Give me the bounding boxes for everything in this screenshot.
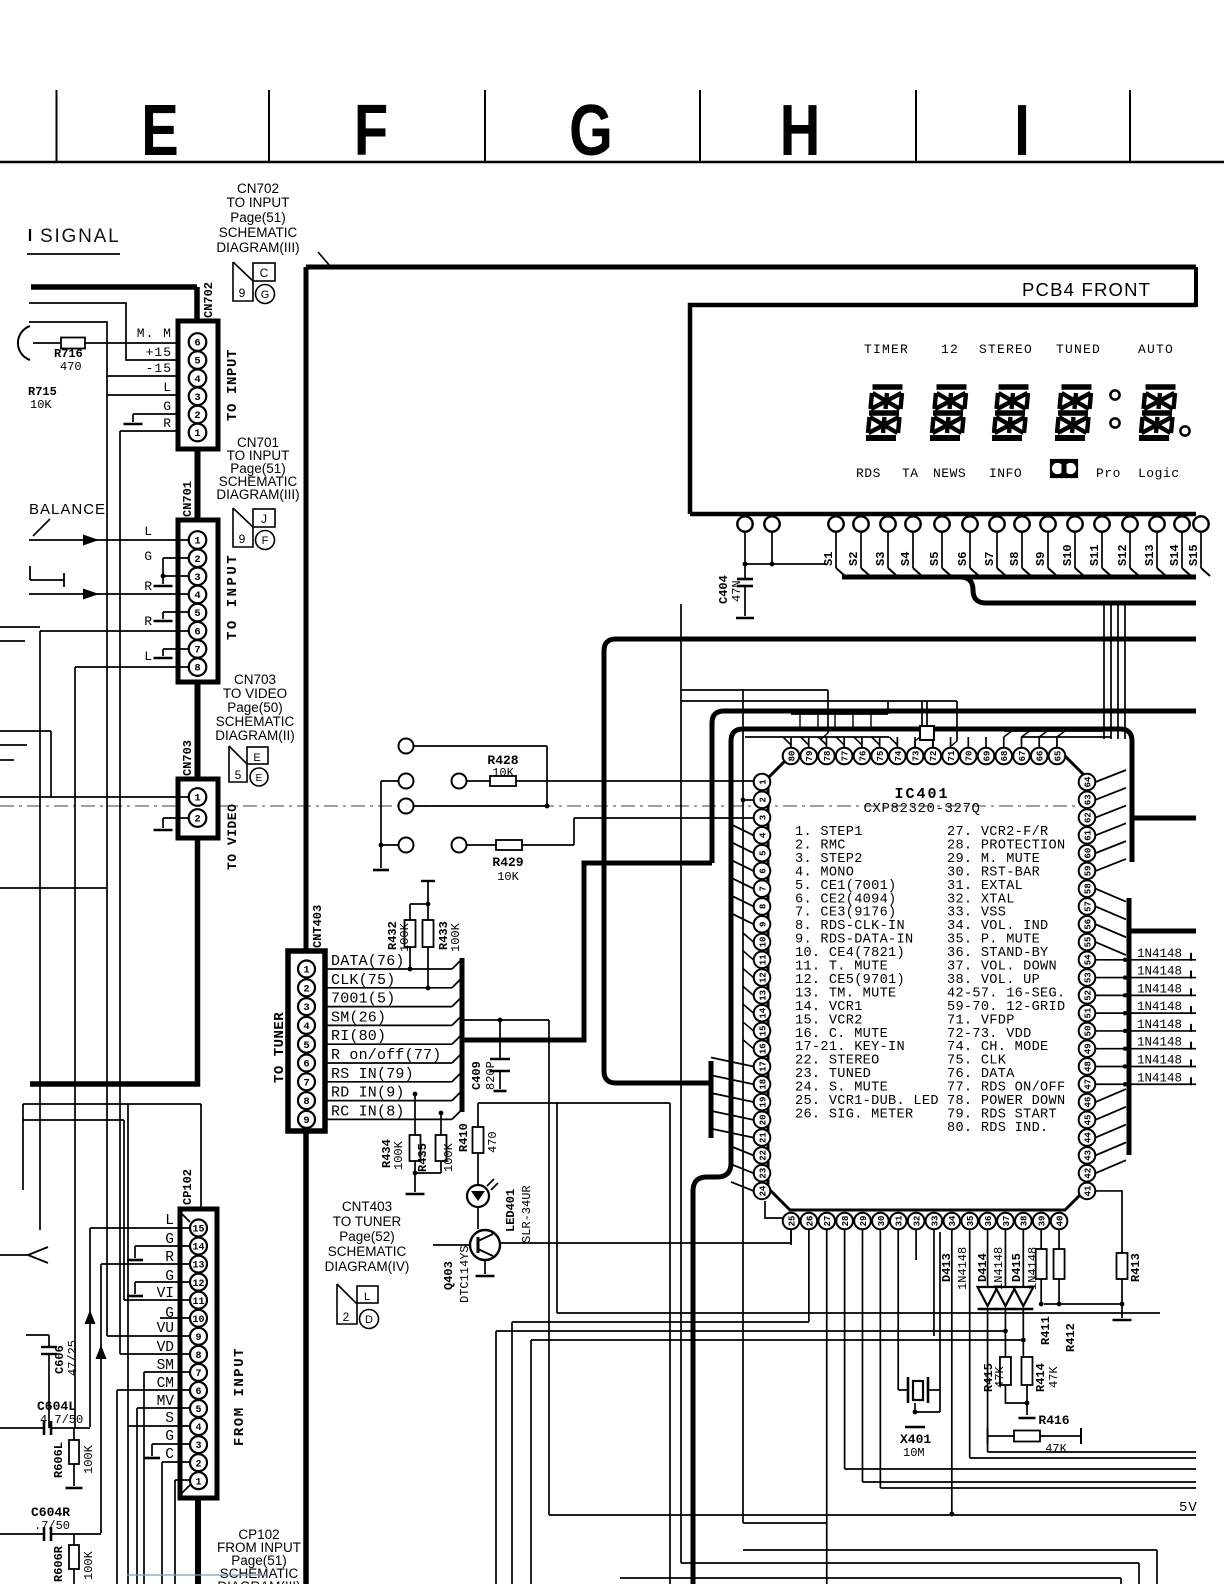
svg-text:5: 5: [303, 1040, 309, 1052]
svg-text:11: 11: [192, 1297, 204, 1308]
svg-text:L: L: [144, 649, 152, 664]
svg-text:TO VIDEO: TO VIDEO: [223, 686, 287, 701]
svg-text:TA: TA: [902, 466, 919, 481]
svg-text:L: L: [165, 1213, 174, 1229]
svg-text:PCB4 FRONT: PCB4 FRONT: [1022, 279, 1151, 300]
svg-text:F: F: [262, 535, 269, 547]
svg-text:5: 5: [194, 608, 200, 620]
svg-text:10M: 10M: [903, 1446, 925, 1460]
svg-text:1N4148: 1N4148: [1137, 1018, 1182, 1032]
svg-text:10: 10: [192, 1315, 204, 1326]
svg-text:RD IN(9): RD IN(9): [331, 1085, 405, 1102]
svg-text:11: 11: [758, 954, 768, 965]
svg-text:2: 2: [343, 1310, 350, 1324]
svg-text:7: 7: [758, 886, 768, 891]
svg-text:63: 63: [1083, 794, 1093, 805]
svg-text:3: 3: [195, 1441, 201, 1452]
svg-text:C409: C409: [470, 1061, 484, 1090]
svg-text:72: 72: [929, 751, 939, 762]
svg-text:INFO: INFO: [989, 466, 1022, 481]
svg-text:1: 1: [194, 793, 200, 805]
svg-text:S6: S6: [956, 552, 970, 566]
svg-text:470: 470: [486, 1131, 500, 1153]
svg-text:10K: 10K: [30, 398, 52, 412]
svg-text:27: 27: [823, 1216, 833, 1227]
svg-text:77: 77: [841, 751, 851, 762]
svg-text:16: 16: [758, 1043, 768, 1054]
svg-text:S9: S9: [1034, 552, 1048, 566]
svg-text:SIGNAL: SIGNAL: [40, 226, 121, 247]
svg-text:30: 30: [877, 1216, 887, 1227]
svg-text:22: 22: [758, 1150, 768, 1161]
svg-text:CN701: CN701: [181, 481, 195, 517]
svg-text:47K: 47K: [993, 1366, 1007, 1388]
svg-text:TIMER: TIMER: [864, 342, 909, 357]
svg-text:4: 4: [303, 1021, 309, 1033]
svg-text:66: 66: [1036, 751, 1046, 762]
svg-text:S: S: [165, 1411, 174, 1427]
svg-text:26. SIG. METER: 26. SIG. METER: [795, 1107, 913, 1122]
svg-text:SCHEMATIC: SCHEMATIC: [219, 225, 298, 240]
svg-text:S4: S4: [899, 552, 913, 566]
svg-text:32: 32: [912, 1216, 922, 1227]
svg-text:AUTO: AUTO: [1138, 342, 1174, 357]
svg-text:R606R: R606R: [52, 1545, 66, 1582]
svg-text:67: 67: [1018, 751, 1028, 762]
svg-text:41: 41: [1083, 1185, 1093, 1196]
svg-text:CNT403: CNT403: [342, 1199, 392, 1214]
svg-text:5: 5: [195, 1405, 201, 1416]
svg-text:42: 42: [1083, 1168, 1093, 1179]
svg-text:STEREO: STEREO: [979, 342, 1033, 357]
svg-text:R: R: [144, 579, 152, 594]
svg-text:69: 69: [982, 751, 992, 762]
svg-text:100K: 100K: [398, 922, 412, 952]
svg-text:DATA(76): DATA(76): [331, 953, 405, 970]
svg-text:DIAGRAM(III): DIAGRAM(III): [216, 240, 299, 255]
svg-text:Page(52): Page(52): [339, 1229, 395, 1244]
svg-text:Logic: Logic: [1138, 466, 1180, 481]
svg-text:G: G: [261, 289, 270, 301]
svg-text:36: 36: [984, 1216, 994, 1227]
svg-text:S7: S7: [983, 552, 997, 566]
svg-text:C: C: [260, 266, 269, 280]
svg-text:13: 13: [758, 990, 768, 1001]
svg-text:56: 56: [1083, 919, 1093, 930]
svg-text:100K: 100K: [449, 922, 463, 952]
svg-text:R: R: [163, 416, 172, 431]
svg-text:53: 53: [1083, 972, 1093, 983]
svg-text:S15: S15: [1187, 544, 1201, 566]
svg-text:SM(26): SM(26): [331, 1009, 386, 1026]
svg-text:13: 13: [192, 1261, 204, 1272]
svg-text:R413: R413: [1129, 1253, 1143, 1282]
svg-text:25: 25: [787, 1216, 797, 1227]
svg-text:15: 15: [192, 1225, 204, 1236]
svg-text:E: E: [253, 752, 260, 764]
svg-text:6: 6: [303, 1059, 309, 1071]
svg-text:G: G: [144, 549, 152, 564]
svg-text:1N4148: 1N4148: [992, 1247, 1006, 1290]
svg-text:3: 3: [758, 815, 768, 820]
svg-text:24: 24: [758, 1185, 768, 1196]
svg-text:8: 8: [194, 663, 200, 675]
svg-text:S5: S5: [928, 552, 942, 566]
svg-text:1N4148: 1N4148: [1137, 1071, 1182, 1085]
svg-text:E: E: [256, 773, 263, 784]
svg-text:6: 6: [194, 626, 200, 638]
svg-text:E: E: [141, 90, 178, 170]
svg-text:C: C: [165, 1447, 174, 1463]
svg-text:71: 71: [947, 750, 957, 761]
svg-text:10K: 10K: [497, 870, 519, 884]
svg-text:RDS: RDS: [856, 466, 881, 481]
svg-text:54: 54: [1083, 954, 1093, 965]
svg-text:R412: R412: [1064, 1323, 1078, 1352]
svg-text:R410: R410: [457, 1123, 471, 1152]
svg-text:12: 12: [941, 342, 959, 357]
svg-text:62: 62: [1083, 812, 1093, 823]
svg-text:+15: +15: [146, 345, 172, 360]
svg-text:X401: X401: [900, 1432, 931, 1447]
svg-text:RI(80): RI(80): [331, 1028, 386, 1045]
svg-text:G: G: [165, 1306, 174, 1322]
svg-text:5: 5: [194, 356, 200, 368]
svg-text:35: 35: [966, 1216, 976, 1227]
svg-text:S8: S8: [1008, 552, 1022, 566]
svg-text:3: 3: [194, 392, 200, 404]
svg-text:60: 60: [1083, 848, 1093, 859]
svg-text:59: 59: [1083, 865, 1093, 876]
svg-text:DIAGRAM(IV): DIAGRAM(IV): [325, 1259, 410, 1274]
svg-text:5V: 5V: [1179, 1500, 1198, 1516]
svg-text:TO INPUT: TO INPUT: [225, 349, 241, 421]
svg-text:18: 18: [758, 1079, 768, 1090]
svg-text:52: 52: [1083, 990, 1093, 1001]
svg-text:44: 44: [1083, 1132, 1093, 1143]
svg-text:6: 6: [758, 868, 768, 873]
svg-text:2: 2: [194, 814, 200, 826]
svg-text:68: 68: [1000, 751, 1010, 762]
svg-text:Pro: Pro: [1096, 466, 1121, 481]
svg-text:S13: S13: [1143, 544, 1157, 566]
svg-text:33: 33: [930, 1216, 940, 1227]
svg-text:100K: 100K: [82, 1444, 96, 1474]
svg-text:17: 17: [758, 1061, 768, 1072]
svg-text:LED401: LED401: [504, 1189, 518, 1232]
svg-text:47N: 47N: [730, 580, 744, 602]
svg-text:2: 2: [194, 410, 200, 422]
svg-text:14: 14: [192, 1243, 204, 1254]
svg-text:100K: 100K: [392, 1140, 406, 1170]
svg-text:100K: 100K: [82, 1550, 96, 1580]
svg-text:CP102: CP102: [181, 1169, 195, 1205]
svg-text:39: 39: [1038, 1216, 1048, 1227]
svg-text:G: G: [163, 399, 172, 414]
svg-text:TO INPUT: TO INPUT: [225, 553, 241, 640]
svg-text:D: D: [365, 1314, 373, 1326]
svg-text:S2: S2: [847, 552, 861, 566]
svg-text:H: H: [780, 90, 821, 170]
svg-text:R416: R416: [1038, 1413, 1069, 1428]
svg-text:G: G: [569, 90, 613, 170]
svg-text:R414: R414: [1034, 1363, 1048, 1392]
svg-text:7: 7: [303, 1077, 309, 1089]
svg-text:10K: 10K: [492, 766, 514, 780]
svg-text:Page(50): Page(50): [227, 700, 283, 715]
svg-text:20: 20: [758, 1114, 768, 1125]
svg-text:1N4148: 1N4148: [1026, 1247, 1040, 1290]
svg-text:D415: D415: [1010, 1253, 1024, 1282]
svg-text:TUNED: TUNED: [1056, 342, 1101, 357]
svg-text:S14: S14: [1168, 544, 1182, 566]
svg-text:CN703: CN703: [234, 672, 276, 687]
svg-text:S1: S1: [822, 552, 836, 566]
svg-text:L: L: [144, 524, 152, 539]
svg-text:2: 2: [758, 797, 768, 802]
svg-text:9: 9: [239, 286, 246, 300]
svg-text:F: F: [354, 90, 388, 170]
svg-text:5: 5: [758, 850, 768, 855]
svg-text:R715: R715: [28, 385, 57, 399]
svg-text:80: 80: [787, 751, 797, 762]
svg-text:R429: R429: [492, 855, 523, 870]
svg-text:48: 48: [1083, 1061, 1093, 1072]
svg-text:S10: S10: [1061, 544, 1075, 566]
svg-text:14: 14: [758, 1007, 768, 1018]
svg-text:8: 8: [303, 1096, 309, 1108]
svg-text:5: 5: [235, 768, 242, 782]
svg-text:79: 79: [805, 751, 815, 762]
svg-text:6: 6: [194, 338, 200, 350]
svg-text:37: 37: [1002, 1216, 1012, 1227]
svg-text:2: 2: [303, 983, 309, 995]
svg-text:C604L: C604L: [37, 1399, 76, 1414]
svg-text:47: 47: [1083, 1079, 1093, 1090]
svg-text:1N4148: 1N4148: [1137, 1053, 1182, 1067]
svg-text:9: 9: [303, 1115, 309, 1127]
svg-text:74: 74: [894, 750, 904, 761]
svg-text:26: 26: [805, 1216, 815, 1227]
svg-text:CNT403: CNT403: [311, 905, 325, 948]
svg-text:64: 64: [1083, 776, 1093, 787]
svg-text:40: 40: [1055, 1216, 1065, 1227]
svg-text:J: J: [261, 512, 267, 526]
svg-text:DIAGRAM(II): DIAGRAM(II): [215, 728, 295, 743]
svg-text:58: 58: [1083, 883, 1093, 894]
svg-text:21: 21: [758, 1132, 768, 1143]
svg-text:57: 57: [1083, 901, 1093, 912]
svg-text:55: 55: [1083, 937, 1093, 948]
svg-text:TO INPUT: TO INPUT: [227, 195, 290, 210]
svg-text:S3: S3: [874, 552, 888, 566]
svg-text:1: 1: [194, 428, 200, 440]
svg-text:65: 65: [1053, 751, 1063, 762]
svg-text:78: 78: [823, 751, 833, 762]
svg-text:R on/off(77): R on/off(77): [331, 1047, 441, 1064]
svg-text:1: 1: [194, 536, 200, 548]
svg-text:1: 1: [303, 965, 309, 977]
svg-text:BALANCE: BALANCE: [29, 501, 106, 518]
svg-text:76: 76: [858, 751, 868, 762]
svg-text:31: 31: [895, 1215, 905, 1226]
svg-text:Q403: Q403: [442, 1261, 456, 1290]
svg-text:Page(51): Page(51): [230, 210, 286, 225]
svg-text:43: 43: [1083, 1150, 1093, 1161]
svg-text:8: 8: [758, 904, 768, 909]
svg-text:SLR-34UR: SLR-34UR: [520, 1185, 534, 1243]
svg-text:D413: D413: [940, 1253, 954, 1282]
svg-text:46: 46: [1083, 1097, 1093, 1108]
svg-text:3: 3: [303, 1002, 309, 1014]
svg-text:R: R: [144, 614, 152, 629]
svg-text:SCHEMATIC: SCHEMATIC: [328, 1244, 407, 1259]
svg-text:NEWS: NEWS: [933, 466, 966, 481]
svg-text:47/25: 47/25: [66, 1340, 80, 1376]
svg-text:I: I: [1014, 90, 1030, 170]
svg-text:7001(5): 7001(5): [331, 991, 395, 1008]
svg-text:R411: R411: [1039, 1316, 1053, 1345]
svg-text:RC IN(8): RC IN(8): [331, 1103, 405, 1120]
svg-text:3: 3: [194, 572, 200, 584]
svg-text:R606L: R606L: [52, 1442, 66, 1478]
svg-text:12: 12: [192, 1279, 204, 1290]
svg-text:TO VIDEO: TO VIDEO: [225, 804, 240, 870]
svg-text:80. RDS IND.: 80. RDS IND.: [947, 1121, 1049, 1136]
svg-text:47K: 47K: [1045, 1442, 1067, 1456]
svg-text:34: 34: [948, 1215, 958, 1226]
svg-text:70: 70: [965, 751, 975, 762]
svg-text:R716: R716: [54, 347, 83, 361]
svg-text:DTC114YS: DTC114YS: [458, 1245, 472, 1303]
svg-text:820P: 820P: [484, 1061, 498, 1090]
svg-text:2: 2: [195, 1459, 201, 1470]
svg-text:S11: S11: [1088, 544, 1102, 566]
svg-text:1N4148: 1N4148: [1137, 947, 1182, 961]
svg-text:C606: C606: [53, 1345, 67, 1374]
svg-text:TO TUNER: TO TUNER: [272, 1012, 288, 1083]
svg-text:TO TUNER: TO TUNER: [333, 1214, 402, 1229]
svg-text:4.7/50: 4.7/50: [40, 1413, 83, 1427]
svg-text:VU: VU: [157, 1321, 174, 1337]
svg-text:SCHEMATIC: SCHEMATIC: [216, 714, 295, 729]
svg-text:47K: 47K: [1047, 1366, 1061, 1388]
svg-text:CN702: CN702: [202, 282, 216, 318]
svg-text:CN703: CN703: [181, 740, 195, 776]
svg-text:6: 6: [195, 1387, 201, 1398]
svg-text:7: 7: [195, 1369, 201, 1380]
svg-text:7: 7: [194, 645, 200, 657]
svg-text:50: 50: [1083, 1026, 1093, 1037]
svg-text:9: 9: [239, 532, 246, 546]
svg-text:4: 4: [195, 1423, 201, 1434]
svg-text:DIAGRAM(III): DIAGRAM(III): [216, 487, 299, 502]
svg-text:9: 9: [758, 922, 768, 927]
svg-text:1N4148: 1N4148: [956, 1247, 970, 1290]
svg-text:49: 49: [1083, 1043, 1093, 1054]
svg-text:100K: 100K: [442, 1142, 456, 1172]
svg-text:23: 23: [758, 1168, 768, 1179]
svg-text:470: 470: [60, 360, 82, 374]
svg-text:C604R: C604R: [31, 1505, 70, 1520]
svg-text:1N4148: 1N4148: [1137, 1000, 1182, 1014]
svg-text:1N4148: 1N4148: [1137, 1036, 1182, 1050]
svg-text:C404: C404: [717, 575, 731, 604]
svg-text:RS IN(79): RS IN(79): [331, 1066, 414, 1083]
svg-text:4: 4: [194, 374, 200, 386]
svg-text:1N4148: 1N4148: [1137, 982, 1182, 996]
svg-text:2: 2: [194, 554, 200, 566]
svg-text:8: 8: [195, 1351, 201, 1362]
svg-text:38: 38: [1020, 1216, 1030, 1227]
svg-text:D414: D414: [976, 1253, 990, 1282]
svg-text:73: 73: [912, 751, 922, 762]
svg-text:28: 28: [841, 1216, 851, 1227]
svg-text:L: L: [364, 1291, 370, 1303]
svg-text:4: 4: [758, 832, 768, 838]
svg-text:51: 51: [1083, 1007, 1093, 1018]
svg-text:M. M: M. M: [137, 326, 172, 341]
svg-text:CXP82320-327Q: CXP82320-327Q: [863, 801, 980, 817]
svg-text:29: 29: [859, 1216, 869, 1227]
svg-text:CLK(75): CLK(75): [331, 972, 395, 989]
svg-text:10: 10: [758, 937, 768, 948]
svg-text:FROM INPUT: FROM INPUT: [232, 1347, 248, 1446]
svg-text:75: 75: [876, 751, 886, 762]
svg-text:S12: S12: [1116, 544, 1130, 566]
svg-text:CN702: CN702: [237, 181, 279, 196]
svg-text:G: G: [165, 1429, 174, 1445]
svg-text:45: 45: [1083, 1114, 1093, 1125]
svg-text:-15: -15: [146, 361, 172, 376]
svg-text:1: 1: [758, 779, 768, 785]
svg-text:4: 4: [194, 590, 200, 602]
svg-text:DIAGRAM(III): DIAGRAM(III): [217, 1579, 300, 1584]
svg-text:L: L: [163, 380, 172, 395]
svg-text:R435: R435: [416, 1143, 430, 1172]
svg-text:61: 61: [1083, 829, 1093, 840]
svg-text:19: 19: [758, 1097, 768, 1108]
svg-text:1N4148: 1N4148: [1137, 965, 1182, 979]
svg-text:1: 1: [195, 1477, 201, 1488]
svg-text:15: 15: [758, 1026, 768, 1037]
svg-text:9: 9: [195, 1333, 201, 1344]
svg-text:12: 12: [758, 972, 768, 983]
